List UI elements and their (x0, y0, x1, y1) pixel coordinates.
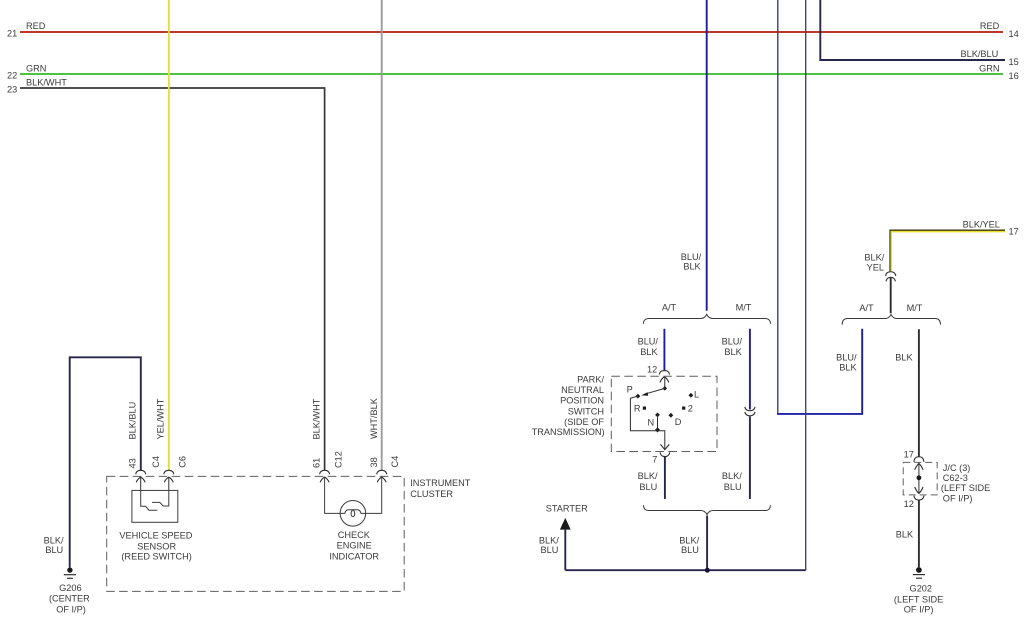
lamp filament (340, 510, 365, 514)
lamp filament loop (351, 510, 355, 517)
contact R (643, 407, 646, 410)
svg-text:M/T: M/T (736, 302, 752, 312)
svg-text:SWITCH: SWITCH (568, 406, 604, 416)
wire pin 61 to lamp (325, 477, 341, 513)
contact N upper (655, 412, 660, 417)
svg-text:BLK: BLK (896, 529, 914, 539)
svg-text:ENGINE: ENGINE (337, 541, 372, 551)
bottom brace (643, 505, 770, 514)
wire N contact stub (657, 415, 659, 430)
svg-text:BLU: BLU (724, 482, 742, 492)
svg-text:17: 17 (1009, 226, 1019, 236)
svg-text:C12: C12 (333, 451, 343, 468)
svg-text:RED: RED (26, 21, 46, 31)
svg-text:J/C (3): J/C (3) (943, 463, 971, 473)
svg-text:P: P (627, 384, 633, 394)
ground G202 (916, 567, 922, 573)
svg-text:22: 22 (7, 70, 17, 80)
PNP switch dashed box (611, 376, 717, 451)
wire WHT/BLK vertical (381, 0, 383, 471)
contact P (635, 394, 640, 399)
contact 2 (682, 407, 685, 410)
svg-text:BLK/: BLK/ (722, 471, 742, 481)
PNP static path P to pin 7 (630, 396, 664, 449)
svg-text:BLU: BLU (541, 545, 559, 555)
reed switch left blade (141, 490, 158, 510)
connector arc pin 38 (377, 470, 387, 474)
PNP switch arm with arrowhead to P (645, 388, 665, 394)
svg-text:BLU/: BLU/ (722, 336, 743, 346)
svg-text:BLK: BLK (640, 347, 658, 357)
wire BLK/BLU U-path from pin 43 to ground G206 (70, 357, 141, 567)
connector cup pin 7 (660, 452, 670, 456)
svg-text:N: N (648, 417, 655, 427)
svg-text:PARK/: PARK/ (577, 375, 604, 385)
svg-text:YEL/WHT: YEL/WHT (155, 398, 165, 439)
svg-text:23: 23 (7, 85, 17, 95)
svg-text:R: R (634, 403, 641, 413)
starter arrow (560, 518, 571, 530)
wire junction horizontal to starter (565, 569, 805, 571)
svg-text:61: 61 (312, 458, 322, 468)
J/C up arrow (915, 463, 923, 469)
svg-text:BLU: BLU (681, 545, 699, 555)
svg-text:38: 38 (369, 457, 379, 467)
wire BLK/BLU M/T branch lower (749, 416, 751, 499)
svg-text:(LEFT SIDE: (LEFT SIDE (941, 483, 990, 493)
svg-text:STARTER: STARTER (546, 503, 588, 513)
svg-text:C62-3: C62-3 (943, 473, 968, 483)
svg-text:OF I/P): OF I/P) (56, 604, 86, 614)
wire BLU/BLK main vertical to left brace (706, 0, 708, 311)
svg-text:TRANSMISSION): TRANSMISSION) (532, 427, 605, 437)
svg-text:15: 15 (1009, 57, 1019, 67)
junction connector J/C (3) dashed box (903, 462, 937, 495)
instrument cluster dashed box (107, 476, 405, 591)
svg-text:RED: RED (980, 21, 1000, 31)
wire GRN (net 22 to 16) (20, 73, 1003, 75)
wire BLK/YEL (net 17) dark part (890, 230, 1005, 271)
PNP switch entry wire (664, 377, 666, 389)
svg-text:BLU: BLU (45, 545, 63, 555)
svg-text:BLK: BLK (895, 353, 913, 363)
wire BLK stem of right brace (890, 278, 892, 313)
svg-text:POSITION: POSITION (560, 396, 604, 406)
contact N lower (655, 427, 660, 432)
connector arc pin C6 (164, 470, 174, 474)
junction node (705, 568, 710, 573)
svg-text:BLK/BLU: BLK/BLU (127, 402, 137, 440)
svg-text:L: L (694, 389, 699, 399)
svg-text:CHECK: CHECK (338, 530, 371, 540)
svg-text:BLK/BLU: BLK/BLU (961, 49, 999, 59)
svg-text:17: 17 (904, 450, 914, 460)
wire pass-through vertical to A/T right branch (777, 0, 779, 414)
svg-text:GRN: GRN (979, 63, 999, 73)
svg-text:BLK: BLK (724, 347, 742, 357)
svg-text:2: 2 (688, 404, 693, 414)
svg-text:NEUTRAL: NEUTRAL (561, 385, 604, 395)
svg-text:BLU: BLU (639, 482, 657, 492)
right brace A/T-M/T (842, 314, 941, 324)
svg-text:C6: C6 (177, 456, 187, 468)
svg-text:14: 14 (1009, 29, 1019, 39)
svg-text:12: 12 (647, 365, 657, 375)
svg-text:GRN: GRN (26, 63, 46, 73)
connector arrow pin 12 (660, 377, 669, 383)
svg-text:(REED SWITCH): (REED SWITCH) (121, 551, 191, 561)
wire BLK/YEL (net 17) yellow part (891, 232, 1005, 272)
svg-text:BLK: BLK (683, 262, 701, 272)
svg-text:(LEFT SIDE: (LEFT SIDE (894, 595, 943, 605)
connector arc pin 12 (659, 371, 669, 375)
svg-text:BLK/WHT: BLK/WHT (26, 78, 67, 88)
wire pin 43 into VSS (140, 477, 142, 490)
connector arrow pin 7 (down) (661, 444, 670, 449)
svg-text:BLK/WHT: BLK/WHT (312, 398, 322, 439)
svg-text:G202: G202 (910, 584, 932, 594)
svg-text:7: 7 (652, 455, 657, 465)
wire pass-through vertical to junction (805, 0, 807, 570)
svg-text:C4: C4 (151, 456, 161, 468)
connector arc pin 17 (914, 457, 924, 462)
svg-text:YEL: YEL (867, 262, 884, 272)
wire BLU/BLK right A/T branch (861, 329, 863, 415)
connector arrow pin 61 (320, 477, 329, 482)
wire BLK/WHT (net 23 to instrument cluster pin 61) (20, 88, 325, 471)
svg-text:12: 12 (904, 499, 914, 509)
svg-text:BLK/: BLK/ (638, 471, 658, 481)
wire RED (net 21 to 14) (20, 31, 1003, 33)
wire BLU/BLK A/T branch to PNP switch pin 12 (663, 329, 665, 371)
PNP pivot contact (663, 386, 668, 391)
svg-text:43: 43 (127, 458, 137, 468)
connector arrow pin C6 (164, 477, 173, 482)
wire pin C6 into VSS (168, 477, 170, 490)
svg-text:BLU/: BLU/ (681, 252, 702, 262)
connector BLK/YEL to BLK (arc pair) (886, 272, 896, 276)
wire BLK right M/T branch (918, 329, 920, 457)
left brace A/T-M/T (643, 314, 770, 324)
wire BLK/BLU stem below bottom brace (706, 516, 708, 571)
vehicle speed sensor box (132, 490, 178, 522)
svg-text:BLK: BLK (839, 363, 857, 373)
wire BLK to ground G202 (918, 500, 920, 567)
svg-text:BLK/: BLK/ (864, 252, 884, 262)
svg-text:INSTRUMENT: INSTRUMENT (410, 478, 471, 488)
check engine indicator lamp (340, 501, 366, 527)
J/C down arrow (915, 487, 923, 493)
svg-text:21: 21 (7, 28, 17, 38)
J/C internal node (917, 475, 922, 480)
ground G206 (67, 567, 72, 572)
svg-text:SENSOR: SENSOR (137, 541, 176, 551)
svg-text:A/T: A/T (662, 302, 677, 312)
wire YEL/WHT vertical (168, 0, 170, 471)
svg-text:M/T: M/T (907, 303, 923, 313)
connector arrow pin 38 (377, 477, 386, 482)
wire BLU/BLK M/T branch upper (749, 329, 751, 410)
svg-text:BLU/: BLU/ (638, 336, 659, 346)
svg-text:OF I/P): OF I/P) (943, 493, 973, 503)
wire BLK/BLU (net 15) (820, 0, 1005, 60)
svg-text:INDICATOR: INDICATOR (329, 551, 379, 561)
svg-text:BLK/YEL: BLK/YEL (963, 219, 1000, 229)
svg-text:D: D (675, 417, 682, 427)
connector cup pin 12 J/C (914, 496, 924, 500)
connector arc pin 61 (320, 470, 330, 474)
svg-text:A/T: A/T (859, 303, 874, 313)
svg-text:C4: C4 (390, 456, 400, 468)
wire pin 38 to lamp (366, 477, 382, 513)
J/C internal wire (918, 463, 920, 493)
wire BLK/BLU starter drop (564, 529, 566, 570)
svg-text:WHT/BLK: WHT/BLK (369, 397, 379, 439)
svg-text:OF I/P): OF I/P) (904, 605, 934, 615)
svg-text:G206: G206 (59, 583, 81, 593)
contact L (688, 393, 693, 398)
svg-text:(SIDE OF: (SIDE OF (564, 417, 604, 427)
connector arc pin 43 (136, 470, 146, 474)
wire BLK/BLU below PNP switch (664, 457, 666, 499)
svg-text:VEHICLE SPEED: VEHICLE SPEED (119, 531, 192, 541)
wire BLU/BLK horizontal to right A/T branch (777, 413, 862, 415)
svg-text:BLU/: BLU/ (836, 352, 857, 362)
connector arrow pin 43 (136, 477, 145, 482)
svg-text:16: 16 (1009, 71, 1019, 81)
contact D (668, 413, 673, 418)
svg-text:(CENTER: (CENTER (49, 594, 90, 604)
reed switch right blade (152, 490, 169, 506)
inline connector M/T branch (cup pair) (745, 407, 755, 411)
svg-text:CLUSTER: CLUSTER (410, 489, 453, 499)
